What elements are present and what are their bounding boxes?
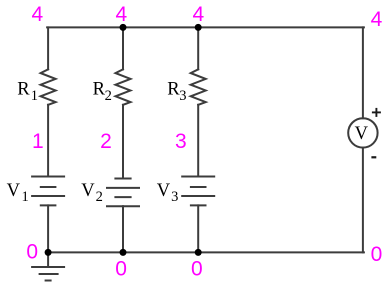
svg-text:0: 0 (26, 241, 38, 264)
svg-text:0: 0 (191, 258, 203, 281)
svg-text:2: 2 (105, 88, 112, 104)
battery V1 (32, 177, 64, 206)
wire branch2 top (122, 27, 124, 69)
svg-text:2: 2 (100, 130, 112, 153)
wire branch1 bottom (47, 205, 49, 252)
wire branch3 bottom (197, 205, 199, 252)
svg-text:4: 4 (32, 3, 44, 26)
wire branch1 top (47, 27, 49, 69)
svg-text:4: 4 (371, 8, 383, 31)
voltmeter minus sign (371, 156, 376, 158)
wire branch2 node 2 (122, 105, 124, 179)
battery V3 (182, 177, 214, 206)
junction dot top branch2 (120, 24, 127, 31)
svg-text:V: V (7, 181, 21, 201)
ground (32, 252, 64, 280)
junction dot bottom branch3 (195, 249, 202, 256)
wire bottom bus node 0 (47, 251, 364, 253)
wire branch2 bottom (122, 206, 124, 252)
svg-text:4: 4 (116, 3, 128, 26)
voltmeter plus sign (372, 108, 381, 117)
voltmeter U1 circle (348, 118, 377, 147)
resistor R2 (116, 69, 131, 105)
resistor R1 (41, 69, 56, 105)
svg-text:3: 3 (175, 130, 187, 153)
svg-text:V: V (355, 124, 369, 144)
svg-text:3: 3 (179, 88, 186, 104)
svg-text:V: V (81, 181, 95, 201)
resistor R3 (191, 69, 206, 105)
svg-text:1: 1 (32, 130, 44, 153)
junction dot bottom branch1 / ground (45, 249, 52, 256)
battery V2 (reversed polarity) (107, 179, 139, 207)
svg-text:R: R (17, 80, 30, 100)
svg-text:4: 4 (193, 3, 205, 26)
svg-text:0: 0 (371, 243, 383, 266)
svg-text:0: 0 (115, 258, 127, 281)
junction dot top branch3 (195, 24, 202, 31)
wire branch3 top (197, 27, 199, 69)
wire top bus node 4 (47, 26, 364, 28)
svg-text:2: 2 (96, 189, 103, 205)
wire right branch upper (362, 27, 364, 118)
svg-text:3: 3 (171, 189, 178, 205)
svg-text:1: 1 (22, 189, 29, 205)
wire branch3 node 3 (197, 105, 199, 177)
junction dot bottom branch2 (120, 249, 127, 256)
wire branch1 node 1 (47, 105, 49, 177)
svg-text:V: V (157, 181, 171, 201)
wire right branch lower (362, 148, 364, 253)
svg-text:1: 1 (31, 88, 38, 104)
